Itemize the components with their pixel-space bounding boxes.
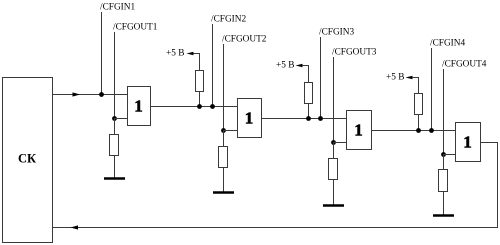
svg-text:+5 В: +5 В (386, 73, 404, 83)
leader line /CFGIN2 (212, 24, 214, 107)
junction dot node 3 (331, 140, 336, 145)
resistor R4b pulldown (439, 170, 448, 192)
wire pullup resistor 3 to wire (418, 114, 420, 131)
leader line /CFGOUT2 (223, 44, 225, 131)
junction dot CFGIN2 (210, 104, 215, 109)
arrow right on CK output wire (73, 92, 81, 96)
ground 2 (213, 191, 234, 194)
leader line /CFGOUT3 (333, 57, 335, 143)
wire resistor to ground 3 (333, 179, 335, 205)
junction dot CFGIN3 (318, 116, 323, 121)
svg-text:/CFGIN1: /CFGIN1 (100, 3, 135, 13)
svg-text:+5 В: +5 В (166, 49, 184, 59)
wire +5V feed 2 (302, 66, 309, 83)
resistor R2b pulldown (219, 147, 228, 168)
block CK (3, 78, 53, 243)
junction dot node 1 (112, 116, 117, 121)
wire gate1 output to gate 2 (150, 106, 237, 108)
wire +5V feed 3 (412, 78, 419, 94)
resistor R1p pullup (196, 71, 204, 92)
svg-text:/CFGIN4: /CFGIN4 (430, 39, 465, 49)
ground 3 (323, 204, 344, 207)
ground 1 (104, 177, 125, 180)
wire node 2 to gate 2 lower input (223, 130, 237, 132)
svg-text:+5 В: +5 В (276, 61, 294, 71)
wire node 1 to gate 1 lower input (114, 118, 127, 120)
wire node 3 to gate 3 lower input (333, 142, 346, 144)
svg-text:СК: СК (18, 152, 36, 166)
junction dot node 2 (221, 128, 226, 133)
junction dot pullup 2 (306, 116, 311, 121)
junction dot pullup 3 (416, 128, 421, 133)
svg-text:1: 1 (463, 133, 472, 152)
wire resistor to ground 1 (114, 155, 116, 178)
arrow +5V (2) (296, 64, 303, 68)
leader line /CFGOUT1 (114, 32, 116, 119)
resistor R3p pullup (415, 94, 423, 115)
resistor R2p pullup (305, 83, 313, 104)
gate U3 (347, 111, 372, 150)
svg-text:/CFGIN2: /CFGIN2 (211, 15, 246, 25)
junction dot node 4 (441, 152, 446, 157)
wire node 3 down to resistor (333, 142, 335, 158)
wire gate2 output to gate 3 (261, 118, 346, 120)
arrow +5V (1) (187, 52, 194, 56)
leader line /CFGIN1 (101, 12, 103, 95)
wire node 1 down to resistor (114, 118, 116, 134)
svg-text:1: 1 (245, 109, 254, 128)
wire node 4 to gate 4 lower input (443, 154, 455, 156)
resistor R1b pulldown (110, 135, 119, 156)
svg-text:/CFGOUT3: /CFGOUT3 (332, 48, 377, 58)
svg-text:1: 1 (134, 97, 143, 116)
wire gate4 output return path (53, 143, 498, 228)
wire pullup resistor 2 to wire (308, 103, 310, 119)
gate U1 (128, 87, 151, 126)
wire gate3 output to gate 4 (371, 130, 455, 132)
wire pullup resistor 1 to wire (199, 91, 201, 107)
leader line /CFGIN3 (320, 37, 322, 119)
svg-text:/CFGIN3: /CFGIN3 (319, 28, 354, 38)
svg-text:1: 1 (354, 121, 363, 140)
wire CK output to gate 1 (53, 94, 127, 96)
wire resistor to ground 2 (223, 167, 225, 192)
arrow +5V (3) (406, 76, 413, 80)
wire resistor to ground 4 (443, 191, 445, 215)
wire node 4 down to resistor (443, 154, 445, 169)
ground 4 (433, 214, 454, 217)
leader line /CFGIN4 (431, 48, 433, 131)
gate U2 (238, 99, 262, 138)
leader line /CFGOUT4 (443, 69, 445, 155)
gate U4 (456, 123, 481, 162)
svg-text:/CFGOUT4: /CFGOUT4 (442, 60, 487, 70)
junction dot CFGIN4 (429, 128, 434, 133)
junction dot pullup 1 (197, 104, 202, 109)
svg-text:/CFGOUT1: /CFGOUT1 (113, 23, 158, 33)
resistor R3b pulldown (329, 159, 338, 180)
arrow left on return wire (71, 225, 79, 229)
wire node 2 down to resistor (223, 130, 225, 146)
wire +5V feed 1 (193, 54, 200, 71)
svg-text:/CFGOUT2: /CFGOUT2 (222, 35, 267, 45)
junction dot CFGIN1 (99, 92, 104, 97)
